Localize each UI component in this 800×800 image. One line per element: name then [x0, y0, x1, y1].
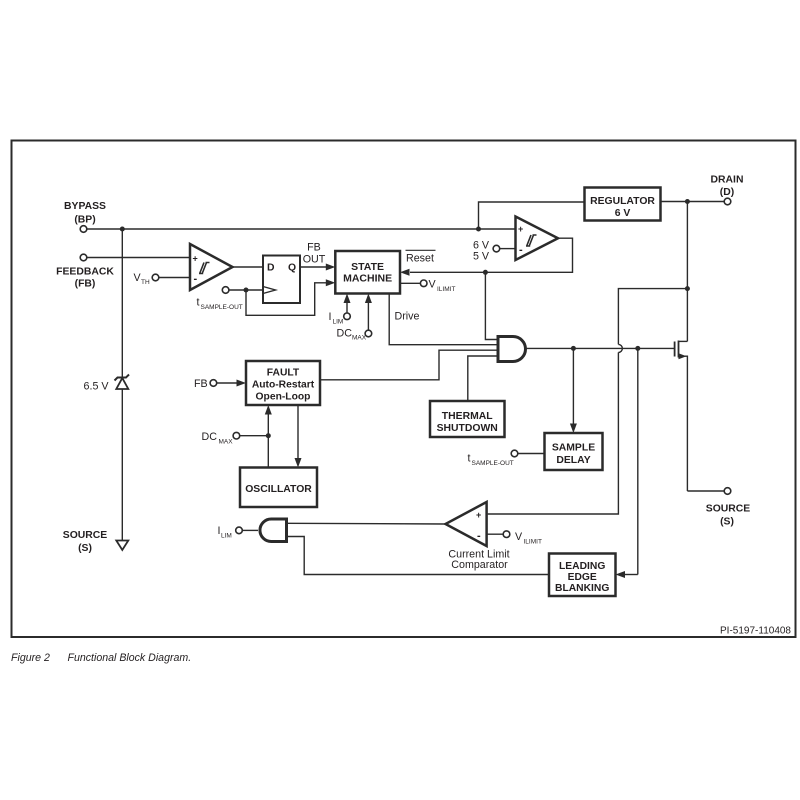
terminal ILIM circle [344, 313, 351, 320]
label ILIM under state machine [329, 311, 344, 326]
block THERMAL SHUTDOWN [430, 401, 505, 437]
svg-text:REGULATOR: REGULATOR [590, 196, 655, 207]
svg-text:OSCILLATOR: OSCILLATOR [245, 484, 312, 495]
svg-text:+: + [476, 510, 481, 520]
terminal FEEDBACK circle [80, 254, 87, 261]
svg-text:V: V [429, 279, 437, 291]
svg-text:t: t [468, 453, 471, 465]
wire oscillator up to fault block [267, 412, 269, 468]
terminal SOURCE (S) left label [63, 530, 108, 554]
svg-text:SAMPLE-OUT: SAMPLE-OUT [472, 460, 514, 467]
svg-text:+: + [518, 224, 523, 234]
label DCMAX at oscillator [202, 431, 234, 446]
svg-text:Functional Block Diagram.: Functional Block Diagram. [68, 652, 192, 664]
svg-text:6.5 V: 6.5 V [84, 381, 110, 393]
wire tSAMPLE-OUT to sample delay [518, 453, 545, 455]
svg-text:DELAY: DELAY [556, 455, 590, 466]
node junction DCMAX [266, 433, 271, 438]
wire tSAMPLE-OUT to clock input [229, 289, 263, 291]
label tSAMPLE-OUT right [468, 453, 514, 468]
svg-text:-: - [477, 530, 481, 542]
zener diode 6.5V [115, 375, 130, 390]
terminal VILIMIT circle [420, 280, 427, 287]
op-amp U2 bypass comparator 6V/5V [516, 217, 559, 261]
svg-text:DC: DC [202, 431, 218, 443]
wire DCMAX to oscillator-fault line [240, 435, 269, 437]
svg-text:SAMPLE-OUT: SAMPLE-OUT [201, 304, 243, 311]
wire Drive from state machine to AND gate [389, 294, 498, 345]
wire AND output to MOSFET gate [526, 347, 675, 349]
wire 6V/5V circle to comparator - input [500, 248, 516, 250]
svg-text:Figure 2: Figure 2 [11, 652, 50, 664]
svg-text:FEEDBACK: FEEDBACK [56, 267, 114, 278]
block REGULATOR 6V [585, 188, 661, 221]
node junction to leading edge blanking [635, 346, 640, 351]
wire comparator output to small AND gate [287, 522, 446, 525]
label VILIMIT at state machine [429, 279, 456, 294]
terminal FEEDBACK (FB) label [56, 267, 114, 290]
wire small AND output to ILIM circle [242, 529, 258, 531]
wire leading edge blanking to small AND gate [287, 537, 550, 575]
terminal 6V/5V circle [493, 245, 500, 252]
terminal DCMAX circle [365, 330, 372, 337]
svg-text:PI-5197-110408: PI-5197-110408 [720, 626, 791, 637]
svg-text:(S): (S) [78, 543, 92, 554]
wire regulator to drain terminal [661, 201, 725, 203]
node junction on BYPASS line (regulator tap) [476, 227, 481, 232]
svg-text:Q: Q [288, 263, 296, 274]
arrowhead into state machine lower input [326, 279, 336, 286]
block LEADING EDGE BLANKING [549, 554, 616, 597]
svg-text:THERMAL: THERMAL [442, 411, 493, 422]
svg-text:FB: FB [194, 378, 208, 390]
terminal BYPASS circle [80, 226, 87, 233]
terminal tSAMPLE-OUT circle [511, 450, 518, 457]
label 6 V / 5 V [473, 240, 490, 263]
label ILIM left [218, 525, 232, 540]
wire thermal shutdown to AND gate [468, 356, 498, 401]
label tSAMPLE-OUT left [197, 297, 243, 312]
svg-text:LIM: LIM [333, 319, 344, 326]
svg-text:(S): (S) [720, 517, 734, 528]
label VTH [134, 272, 150, 286]
node junction at drain [685, 199, 690, 204]
node junction drain sense [685, 286, 690, 291]
svg-text:TH: TH [141, 279, 150, 286]
terminal DRAIN circle [724, 198, 731, 205]
svg-text:t: t [197, 297, 200, 309]
arrowhead Reset into state machine [400, 269, 410, 276]
block SAMPLE DELAY [545, 433, 603, 470]
wire to sample delay [572, 348, 574, 426]
AND gate small (current limit, mirrored) [260, 519, 287, 542]
svg-text:6 V: 6 V [615, 208, 631, 219]
ground arrow at source left [116, 541, 128, 551]
wire MOSFET source to SOURCE terminal [687, 490, 724, 492]
svg-text:(BP): (BP) [74, 215, 95, 226]
node junction on Reset line [483, 270, 488, 275]
terminal tSAMPLE-OUT circle [222, 287, 229, 294]
wire VTH to comparator - input [159, 277, 190, 279]
wire - input to VILIMIT circle [487, 533, 504, 535]
svg-text:Reset: Reset [406, 253, 434, 265]
op-amp U3 current limit comparator (pointing left) [446, 502, 487, 546]
wire riser to regulator [479, 202, 585, 229]
svg-text:5 V: 5 V [473, 251, 490, 263]
svg-text:Comparator: Comparator [451, 559, 508, 571]
node junction to sample delay [571, 346, 576, 351]
wire drain vertical to MOSFET [686, 202, 688, 342]
wire fault down to oscillator [297, 405, 299, 461]
transistor Q1 MOSFET [675, 341, 688, 492]
svg-text:-: - [519, 244, 523, 256]
svg-text:DC: DC [337, 328, 353, 340]
node junction on BYPASS line (zener tap) [120, 227, 125, 232]
svg-text:I: I [329, 311, 332, 323]
label FB OUT [303, 242, 326, 266]
svg-text:V: V [515, 531, 523, 543]
wire comparator out to D flip-flop [233, 266, 264, 268]
wire zener branch from BYPASS down [121, 229, 123, 377]
terminal BYPASS (BP) label [64, 201, 106, 226]
arrowhead into state machine upper input [326, 264, 336, 271]
svg-text:STATE: STATE [351, 261, 384, 273]
svg-text:MAX: MAX [352, 335, 367, 342]
svg-text:(FB): (FB) [75, 279, 96, 290]
wire FB into fault block [217, 382, 238, 384]
svg-text:LIM: LIM [221, 533, 232, 540]
label DCMAX under state machine [337, 328, 367, 342]
svg-text:Open-Loop: Open-Loop [256, 392, 311, 403]
svg-text:MAX: MAX [219, 439, 234, 446]
terminal FB circle [210, 380, 217, 387]
op-amp U1 feedback comparator with hysteresis [190, 244, 233, 290]
wire FEEDBACK to comparator [87, 257, 190, 259]
svg-text:FAULT: FAULT [267, 368, 300, 379]
terminal DCMAX circle [233, 432, 240, 439]
svg-text:OUT: OUT [303, 254, 326, 266]
svg-text:Drive: Drive [395, 311, 420, 323]
svg-text:ILIMIT: ILIMIT [524, 539, 542, 546]
wire state machine to VILIMIT [400, 282, 420, 284]
wire Q to state machine [300, 266, 327, 268]
svg-text:Auto-Restart: Auto-Restart [252, 380, 315, 391]
wire to leading edge blanking [637, 348, 639, 574]
label Reset with overline [406, 250, 436, 264]
terminal VTH circle [152, 274, 159, 281]
wire BYPASS to comparator + input [87, 228, 516, 230]
terminal SOURCE (S) right label [706, 504, 751, 528]
block FAULT Auto-Restart Open-Loop [246, 361, 320, 405]
svg-text:BYPASS: BYPASS [64, 201, 106, 212]
svg-text:MACHINE: MACHINE [343, 273, 392, 285]
terminal ILIM circle left [236, 527, 243, 534]
svg-text:+: + [193, 254, 198, 264]
wire DCMAX arrow into state machine [367, 300, 369, 330]
border frame [12, 141, 796, 638]
block STATE MACHINE [335, 251, 400, 294]
svg-text:FB: FB [307, 242, 321, 254]
label Current Limit Comparator [448, 549, 509, 572]
block OSCILLATOR [240, 468, 317, 508]
svg-text:LEADING: LEADING [559, 561, 605, 572]
wire tSAMPLE-OUT branch to state machine [246, 283, 327, 316]
wire fault output to AND gate [320, 350, 498, 380]
svg-text:SOURCE: SOURCE [706, 504, 751, 515]
svg-text:SHUTDOWN: SHUTDOWN [437, 423, 498, 434]
svg-text:BLANKING: BLANKING [555, 583, 609, 594]
svg-text:(D): (D) [720, 187, 734, 198]
svg-text:-: - [194, 273, 198, 285]
wire drain sense to current limit comparator + (with hop) [618, 289, 687, 345]
flip-flop D/Q [263, 256, 300, 304]
terminal SOURCE circle right [724, 488, 731, 495]
terminal DRAIN (D) label [711, 175, 744, 199]
wire ILIM arrow into state machine [346, 300, 348, 313]
AND gate main (gate drive) [498, 337, 526, 362]
svg-text:SAMPLE: SAMPLE [552, 443, 595, 454]
label VILIMIT right [515, 531, 542, 546]
terminal VILIMIT circle right [503, 531, 510, 538]
svg-text:SOURCE: SOURCE [63, 530, 108, 541]
wire junction down to AND gate input 1 [485, 272, 498, 339]
wire Reset feedback from 6V/5V comparator to state machine [410, 238, 573, 272]
svg-text:DRAIN: DRAIN [711, 175, 744, 186]
svg-text:D: D [267, 263, 275, 274]
svg-text:EDGE: EDGE [568, 572, 597, 583]
node junction tSAMPLE-OUT [244, 288, 249, 293]
svg-text:ILIMIT: ILIMIT [437, 286, 455, 293]
